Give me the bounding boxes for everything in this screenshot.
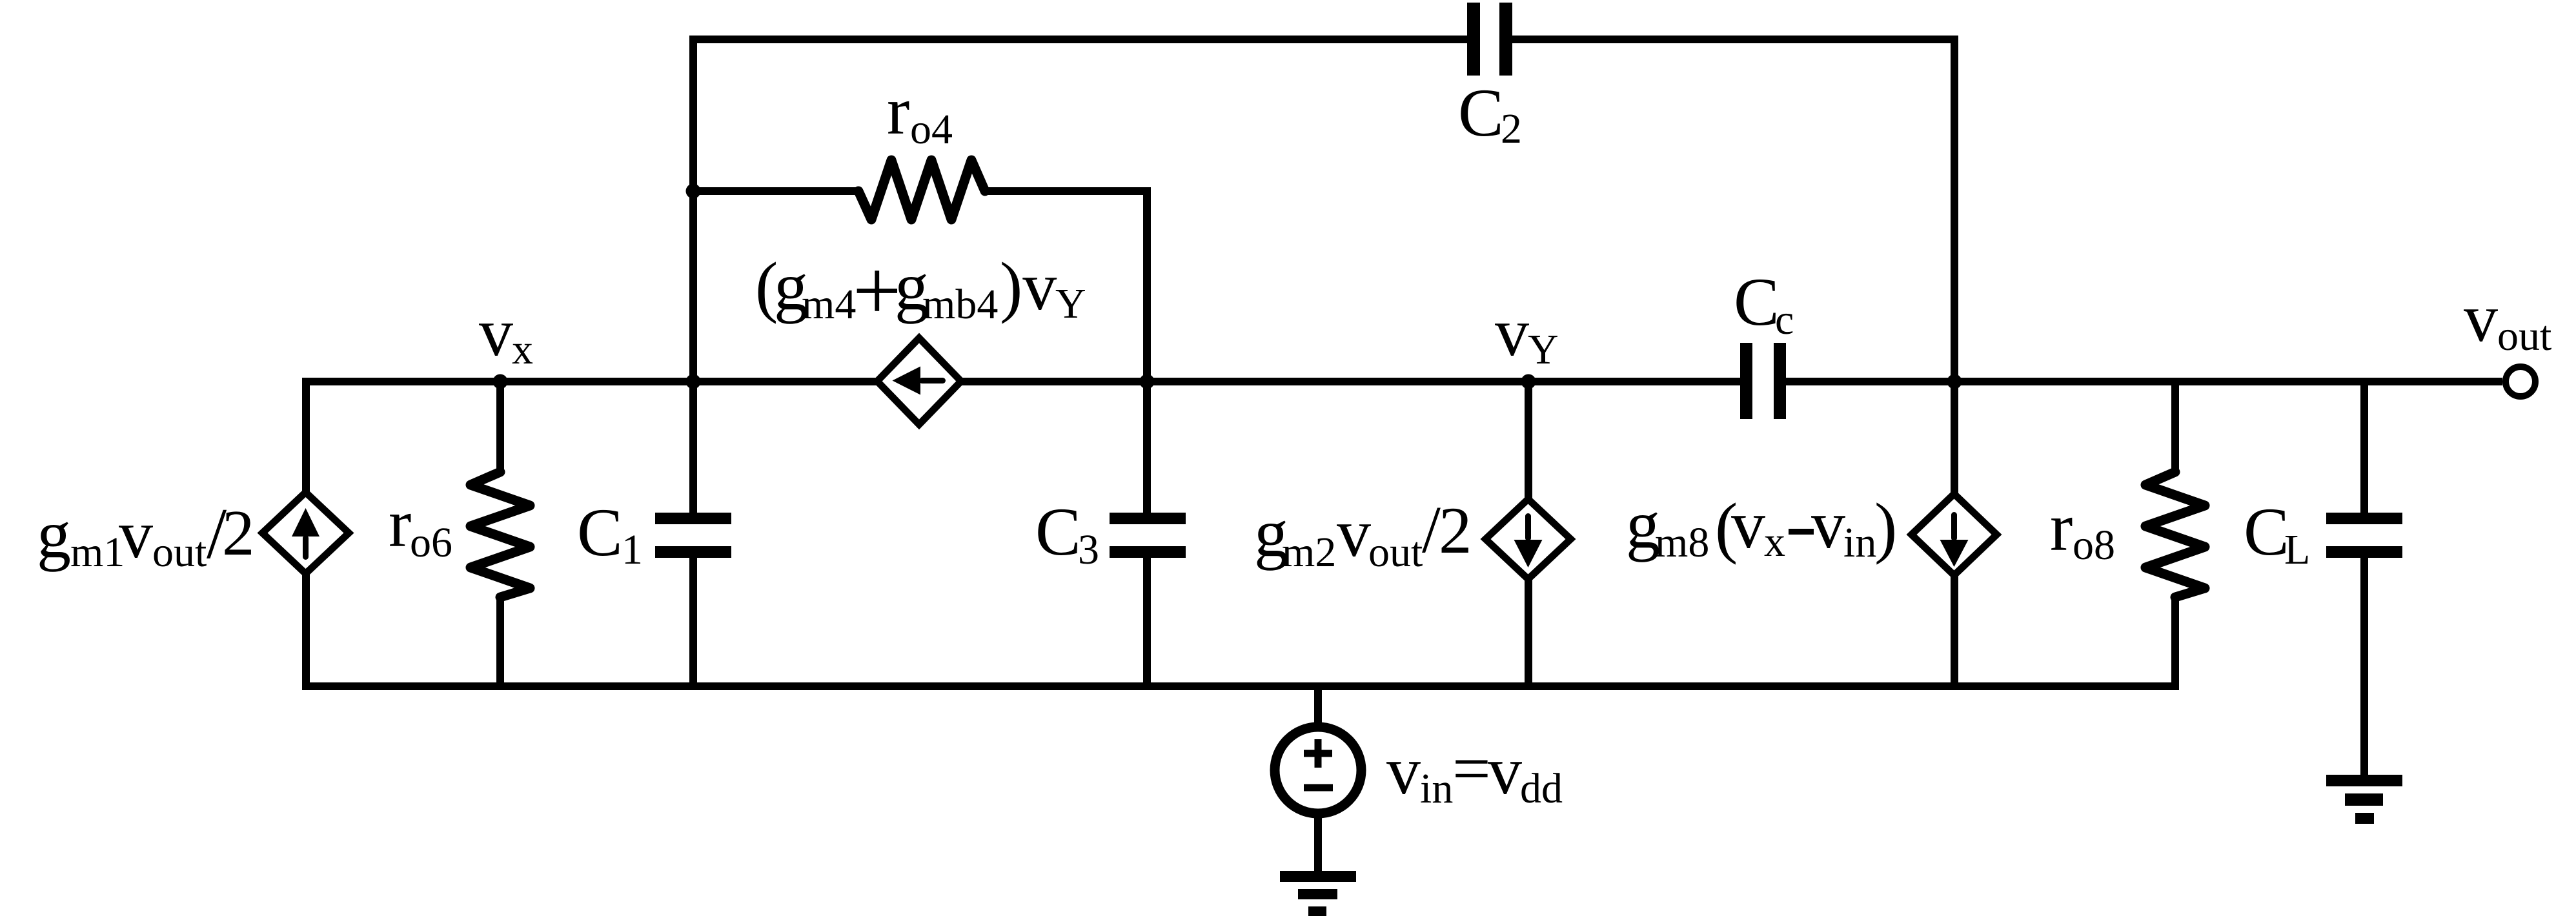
svg-text:out: out (1368, 529, 1423, 576)
svg-text:)v: )v (1000, 249, 1057, 324)
svg-text:C: C (1734, 264, 1780, 340)
svg-text:m8: m8 (1655, 519, 1709, 566)
svg-text:v: v (1731, 487, 1765, 562)
svg-text:in: in (1420, 765, 1453, 812)
svg-text:L: L (2284, 526, 2310, 573)
svg-text:g: g (37, 496, 71, 572)
svg-text:v: v (1811, 487, 1845, 562)
svg-text:v: v (1495, 294, 1529, 370)
svg-text:+: + (853, 243, 902, 338)
svg-text:c: c (1775, 296, 1794, 343)
svg-text:o8: o8 (2073, 522, 2115, 569)
svg-text:v: v (1386, 733, 1421, 808)
svg-text:x: x (512, 326, 533, 373)
svg-text:/: / (1422, 493, 1441, 567)
svg-text:C: C (1035, 494, 1081, 569)
svg-text:v: v (2464, 280, 2498, 356)
svg-text:o4: o4 (910, 106, 953, 153)
svg-text:2: 2 (222, 496, 255, 569)
svg-text:C: C (2244, 494, 2289, 569)
svg-text:v: v (479, 294, 513, 370)
svg-text:out: out (152, 529, 207, 576)
svg-text:r: r (2050, 489, 2073, 565)
svg-text:mb4: mb4 (922, 281, 998, 328)
svg-text:v: v (1337, 495, 1371, 571)
svg-text:C: C (1458, 75, 1504, 150)
svg-text:2: 2 (1501, 105, 1522, 152)
svg-text:in: in (1843, 519, 1876, 566)
svg-text:r: r (887, 73, 909, 148)
svg-text:r: r (389, 486, 411, 561)
svg-text:=: = (1452, 731, 1491, 806)
svg-text:x: x (1764, 518, 1785, 566)
svg-text:Y: Y (1055, 280, 1086, 327)
svg-text:m4: m4 (802, 281, 856, 328)
svg-text:): ) (1874, 489, 1897, 565)
svg-text:dd: dd (1520, 765, 1563, 812)
svg-text:3: 3 (1078, 526, 1099, 573)
svg-text:out: out (2497, 312, 2551, 360)
svg-text:2: 2 (1439, 494, 1472, 567)
svg-text:v: v (1488, 733, 1522, 808)
svg-text:1: 1 (622, 526, 643, 573)
svg-text:o6: o6 (410, 519, 452, 566)
svg-text:m1: m1 (70, 529, 125, 576)
svg-text:C: C (577, 495, 623, 570)
svg-text:m2: m2 (1282, 529, 1336, 576)
svg-text:Y: Y (1528, 326, 1559, 373)
